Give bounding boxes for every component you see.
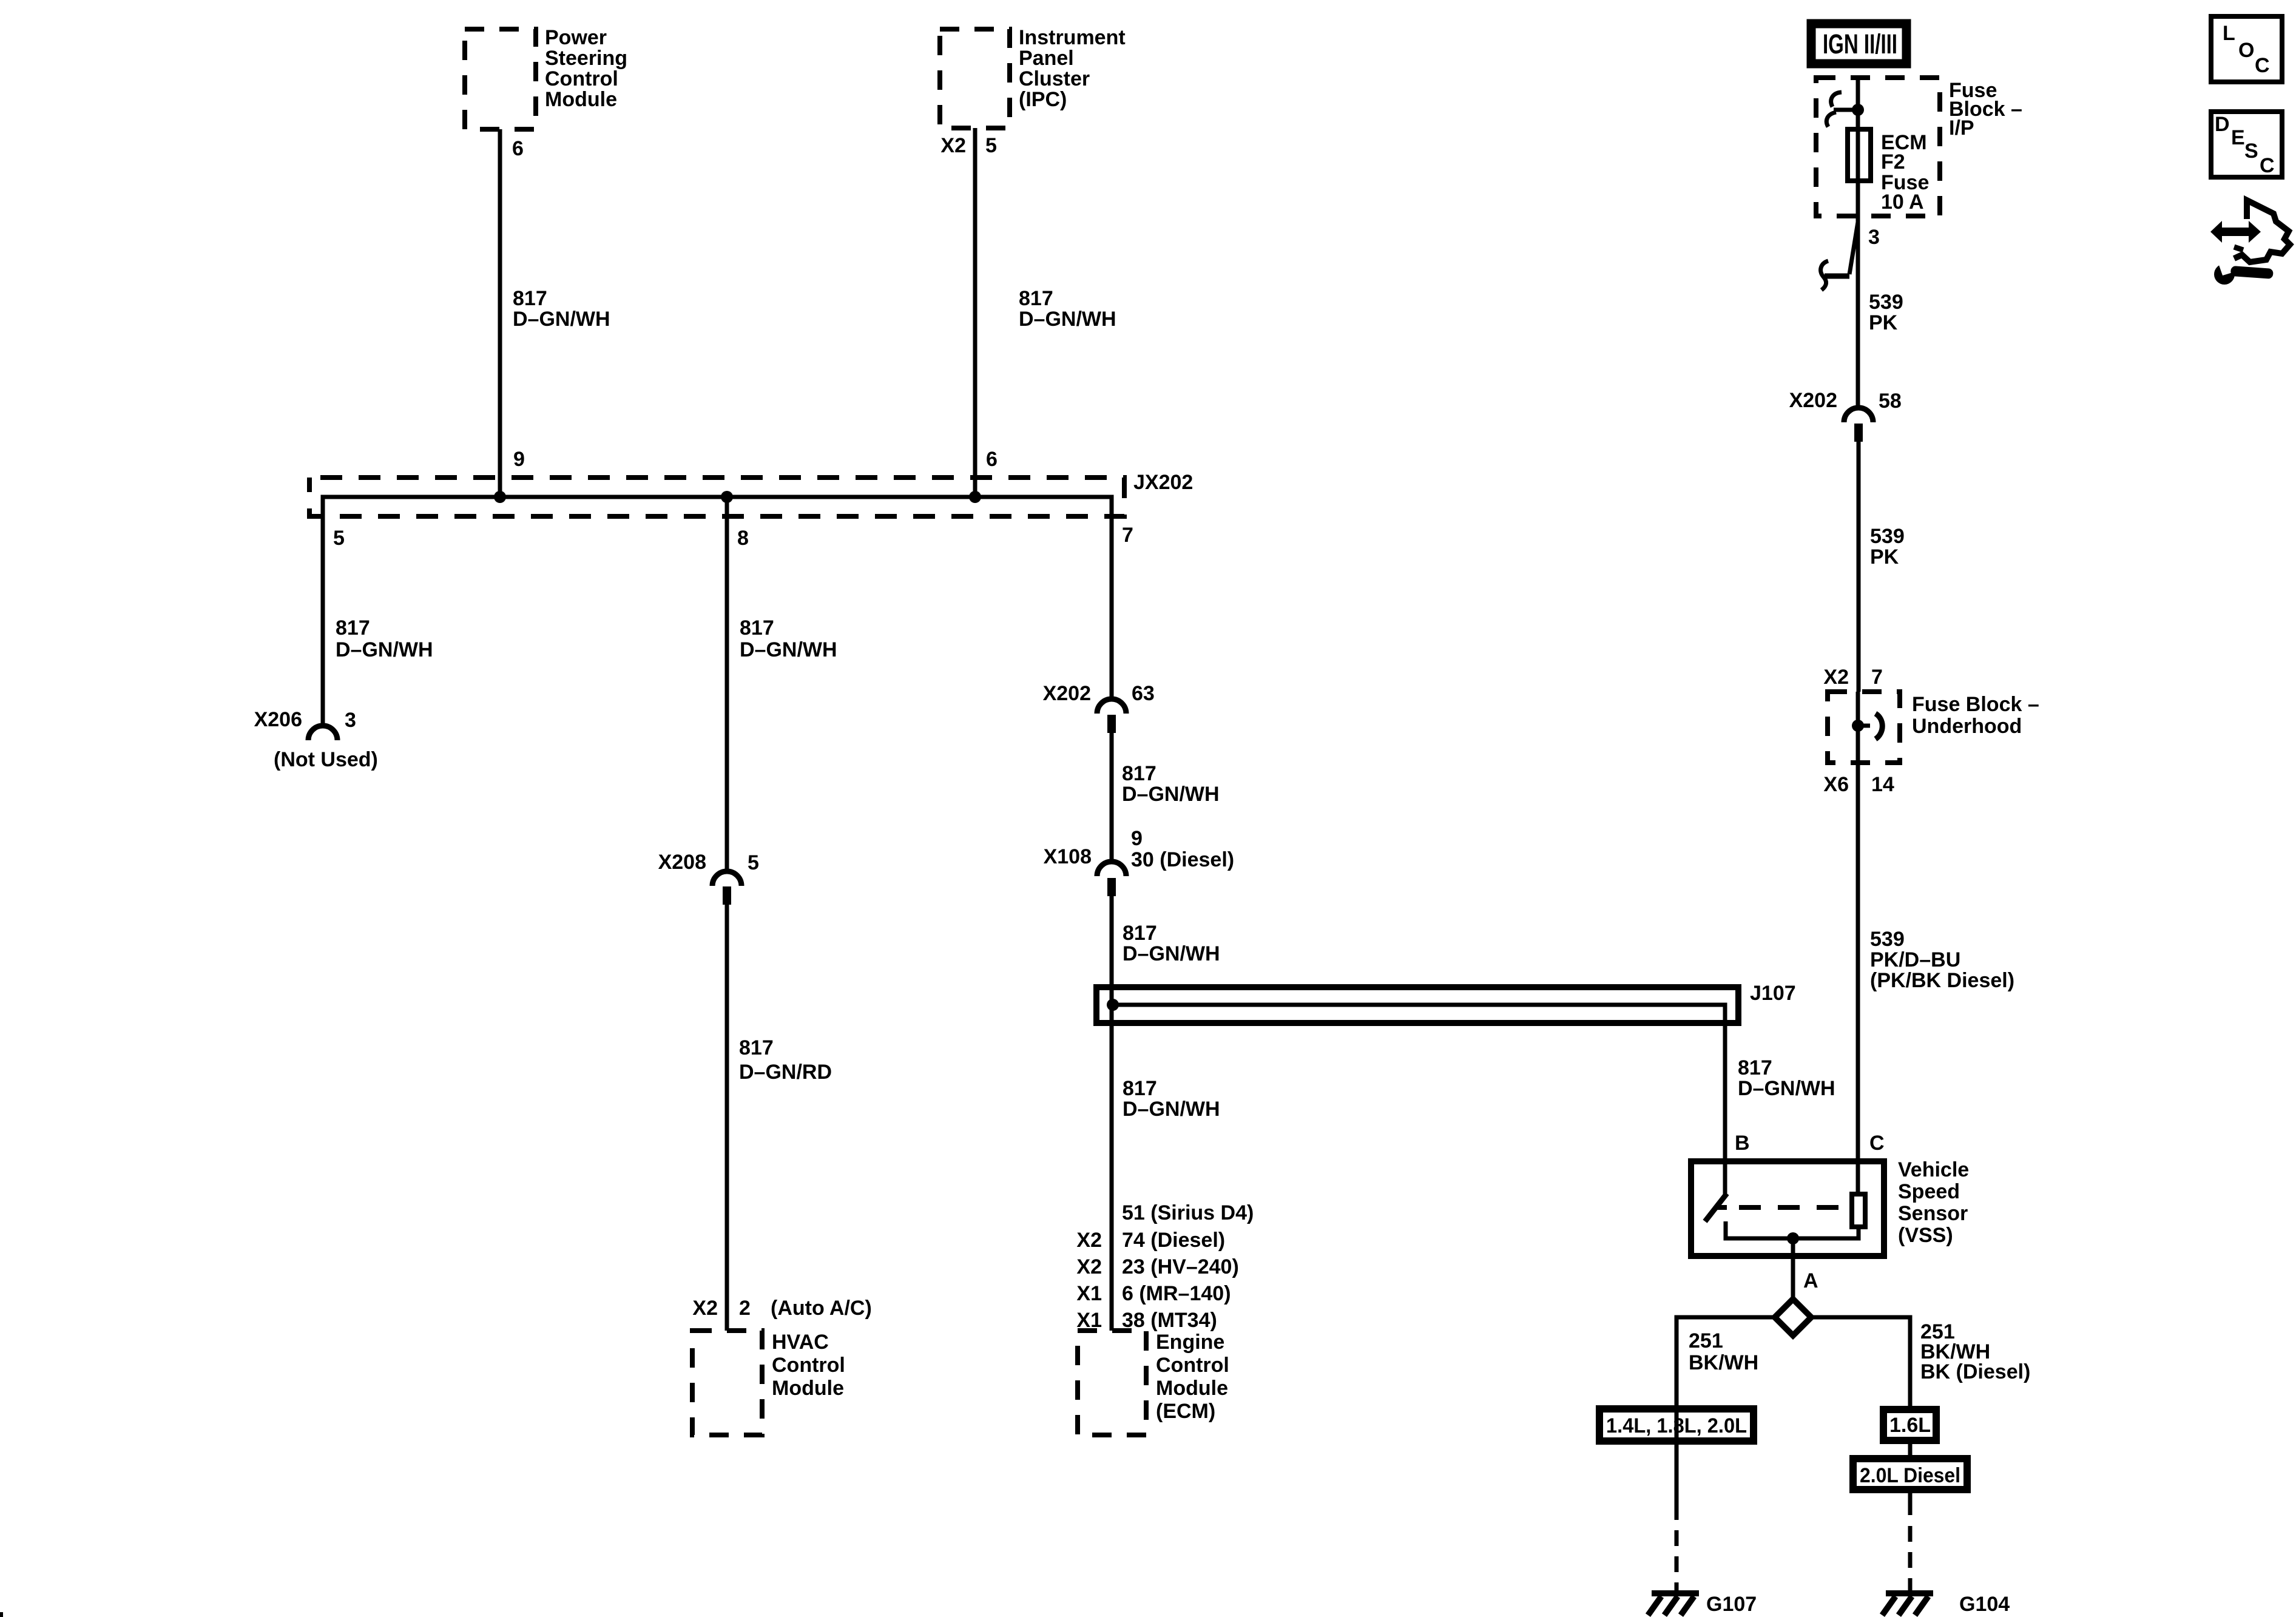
splice pack JX202 dashed outline bbox=[309, 478, 1124, 516]
svg-text:D–GN/WH: D–GN/WH bbox=[513, 308, 610, 331]
module Engine Control Module ECM (dashed box) bbox=[1078, 1331, 1229, 1435]
svg-text:Module: Module bbox=[772, 1377, 844, 1400]
svg-text:1.6L: 1.6L bbox=[1889, 1414, 1931, 1437]
wire PSCM pin 6 to JX202 bbox=[498, 129, 502, 497]
ground G107 bbox=[1648, 1593, 1757, 1616]
junction node at middle drop on bus bbox=[721, 491, 733, 503]
fuse ECM F2 10A bbox=[1848, 129, 1929, 214]
svg-text:Control: Control bbox=[545, 67, 618, 90]
wire underhood fuse block to VSS C bbox=[1856, 763, 1860, 1194]
connector X208 pin 5 bbox=[658, 851, 759, 905]
connector X206 pin 3 (not used) bbox=[254, 708, 378, 771]
svg-text:D–GN/WH: D–GN/WH bbox=[1122, 783, 1220, 806]
legend LOC box bbox=[2211, 16, 2282, 82]
svg-text:58: 58 bbox=[1879, 390, 1902, 413]
wire label 817 D-GN/WH (PSCM branch) bbox=[513, 287, 610, 331]
svg-text:Control: Control bbox=[772, 1354, 845, 1377]
wire IPC pin 5 to JX202 bbox=[973, 128, 977, 497]
svg-text:C: C bbox=[1869, 1132, 1885, 1155]
svg-text:X2: X2 bbox=[1076, 1255, 1102, 1278]
svg-text:IGN II/III: IGN II/III bbox=[1823, 29, 1897, 59]
wire label 817 D-GN/WH (below J107) bbox=[1123, 1077, 1220, 1121]
wire 2.0L Diesel box to ground G104 (dashed) bbox=[1908, 1490, 1913, 1591]
svg-text:I/P: I/P bbox=[1949, 116, 1974, 140]
svg-text:X2: X2 bbox=[1823, 666, 1849, 689]
svg-text:X1: X1 bbox=[1076, 1282, 1102, 1305]
svg-text:14: 14 bbox=[1871, 773, 1894, 796]
svg-text:817: 817 bbox=[739, 1036, 774, 1059]
svg-text:3: 3 bbox=[1868, 226, 1880, 249]
fuse block I/P dashed box bbox=[1816, 78, 1940, 216]
wire X202-58 to fuse block underhood bbox=[1857, 442, 1861, 692]
fuse block underhood dashed box bbox=[1828, 692, 1900, 763]
option box 1.4L, 1.8L, 2.0L bbox=[1599, 1409, 1754, 1441]
label Fuse Block - I/P bbox=[1949, 79, 2022, 140]
wire label 817 D-GN/WH (middle branch) bbox=[740, 616, 837, 661]
legend service tool icon bbox=[2210, 200, 2290, 285]
svg-text:30 (Diesel): 30 (Diesel) bbox=[1131, 848, 1234, 871]
ECM pin list X1 6 (MR-140) bbox=[1076, 1282, 1231, 1305]
svg-text:539: 539 bbox=[1869, 291, 1903, 314]
clip terminal in underhood fuse block bbox=[1858, 714, 1882, 739]
svg-text:817: 817 bbox=[513, 287, 547, 310]
wire VSS pin A to splice diamond bbox=[1791, 1238, 1795, 1299]
option box 2.0L Diesel bbox=[1853, 1459, 1967, 1490]
clip terminal in fuse block bbox=[1826, 92, 1858, 127]
svg-text:10 A: 10 A bbox=[1881, 191, 1924, 214]
svg-text:C: C bbox=[2255, 54, 2270, 77]
svg-text:D–GN/RD: D–GN/RD bbox=[739, 1061, 832, 1084]
svg-text:X202: X202 bbox=[1043, 682, 1091, 705]
wire label 817 D-GN/WH (IPC branch) bbox=[1019, 287, 1116, 331]
resistor inside VSS bbox=[1852, 1194, 1865, 1227]
wire label 251 BK/WH BK (Diesel) (right) bbox=[1920, 1320, 2030, 1383]
svg-text:1.4L, 1.8L, 2.0L: 1.4L, 1.8L, 2.0L bbox=[1606, 1414, 1747, 1437]
power label IGN II/III bbox=[1811, 24, 1906, 64]
svg-text:E: E bbox=[2231, 126, 2245, 149]
svg-text:G107: G107 bbox=[1706, 1593, 1757, 1616]
svg-text:23 (HV–240): 23 (HV–240) bbox=[1122, 1255, 1239, 1278]
junction node at PSCM wire on bus bbox=[494, 491, 506, 503]
svg-text:9: 9 bbox=[1131, 827, 1143, 850]
wire label 817 D-GN/WH (below X202-63) bbox=[1122, 762, 1220, 806]
svg-text:2.0L Diesel: 2.0L Diesel bbox=[1860, 1464, 1960, 1487]
svg-text:539: 539 bbox=[1870, 525, 1905, 548]
svg-text:X2: X2 bbox=[940, 134, 966, 157]
wire label 817 D-GN/RD bbox=[739, 1036, 832, 1084]
svg-text:Module: Module bbox=[1156, 1377, 1228, 1400]
connector X6 pin 14 of underhood fuse block bbox=[1823, 773, 1894, 796]
svg-text:74 (Diesel): 74 (Diesel) bbox=[1122, 1229, 1225, 1252]
svg-text:Instrument: Instrument bbox=[1019, 26, 1126, 49]
wire through underhood fuse block bbox=[1856, 692, 1860, 763]
svg-text:251: 251 bbox=[1689, 1329, 1723, 1352]
svg-text:D–GN/WH: D–GN/WH bbox=[1123, 1098, 1220, 1121]
svg-text:D–GN/WH: D–GN/WH bbox=[1019, 308, 1116, 331]
svg-text:817: 817 bbox=[1123, 922, 1157, 945]
junction node in underhood fuse block bbox=[1852, 720, 1864, 732]
svg-text:PK: PK bbox=[1870, 545, 1899, 569]
svg-text:5: 5 bbox=[985, 134, 997, 157]
internal wire switch to resistor bottom bbox=[1726, 1221, 1859, 1238]
svg-text:Cluster: Cluster bbox=[1019, 67, 1090, 90]
svg-text:Underhood: Underhood bbox=[1912, 715, 2022, 738]
splice diamond bbox=[1775, 1299, 1811, 1335]
svg-text:X208: X208 bbox=[658, 851, 706, 874]
connector X108 pins 9 / 30 (Diesel) bbox=[1044, 827, 1235, 896]
svg-text:B: B bbox=[1735, 1132, 1750, 1155]
svg-text:539: 539 bbox=[1870, 928, 1905, 951]
svg-text:A: A bbox=[1803, 1269, 1818, 1292]
svg-text:6: 6 bbox=[512, 137, 524, 160]
junction node inside VSS bbox=[1787, 1232, 1799, 1244]
svg-text:Power: Power bbox=[545, 26, 607, 49]
connector X2 pin 5 of IPC bbox=[940, 134, 997, 157]
wire 1.4L box to ground G107 (dashed) bbox=[1675, 1441, 1679, 1591]
svg-text:Fuse Block –: Fuse Block – bbox=[1912, 693, 2039, 716]
wire X202-63 to X108 bbox=[1110, 733, 1114, 862]
module Power Steering Control Module (dashed box) bbox=[465, 26, 627, 129]
svg-text:(Not Used): (Not Used) bbox=[274, 748, 378, 771]
wire label 817 D-GN/WH (left branch) bbox=[336, 616, 433, 661]
splice J107 outer box bbox=[1096, 987, 1738, 1023]
svg-text:6 (MR–140): 6 (MR–140) bbox=[1122, 1282, 1231, 1305]
ground G104 bbox=[1882, 1593, 2010, 1616]
legend DESC box bbox=[2211, 112, 2282, 177]
svg-text:7: 7 bbox=[1122, 524, 1133, 547]
svg-text:J107: J107 bbox=[1750, 982, 1796, 1005]
svg-text:(PK/BK Diesel): (PK/BK Diesel) bbox=[1870, 969, 2014, 992]
svg-text:817: 817 bbox=[336, 616, 370, 640]
module HVAC Control Module (dashed box) bbox=[692, 1331, 845, 1435]
switch arm inside VSS bbox=[1705, 1193, 1727, 1221]
svg-text:BK (Diesel): BK (Diesel) bbox=[1920, 1360, 2030, 1383]
connector X202 pin 58 bbox=[1789, 389, 1902, 442]
svg-text:G104: G104 bbox=[1959, 1593, 2010, 1616]
svg-text:817: 817 bbox=[1122, 762, 1156, 785]
ECM pin list X1 38 (MT34) bbox=[1076, 1309, 1217, 1332]
svg-text:Sensor: Sensor bbox=[1898, 1202, 1968, 1225]
svg-text:X108: X108 bbox=[1044, 845, 1092, 868]
svg-text:X6: X6 bbox=[1823, 773, 1849, 796]
svg-text:O: O bbox=[2238, 39, 2254, 62]
svg-text:63: 63 bbox=[1132, 682, 1155, 705]
svg-text:PK/D–BU: PK/D–BU bbox=[1870, 948, 1960, 971]
svg-text:6: 6 bbox=[986, 448, 998, 471]
junction node in fuse block bbox=[1852, 104, 1864, 116]
svg-text:D–GN/WH: D–GN/WH bbox=[1738, 1077, 1835, 1100]
svg-text:3: 3 bbox=[345, 709, 356, 732]
clip terminal below fuse block bbox=[1821, 222, 1858, 290]
svg-text:Steering: Steering bbox=[545, 47, 627, 70]
svg-text:817: 817 bbox=[1019, 287, 1053, 310]
svg-text:5: 5 bbox=[333, 527, 345, 550]
svg-text:X2: X2 bbox=[692, 1297, 718, 1320]
svg-text:Vehicle: Vehicle bbox=[1898, 1158, 1969, 1181]
ECM pin list X2 74 (Diesel) bbox=[1076, 1229, 1225, 1252]
svg-text:BK/WH: BK/WH bbox=[1689, 1351, 1758, 1374]
svg-text:D–GN/WH: D–GN/WH bbox=[1123, 942, 1220, 965]
svg-text:(VSS): (VSS) bbox=[1898, 1224, 1953, 1247]
svg-text:(IPC): (IPC) bbox=[1019, 88, 1067, 111]
wire 1.6L to 2.0L Diesel box bbox=[1908, 1440, 1913, 1459]
component Vehicle Speed Sensor box bbox=[1691, 1158, 1969, 1256]
wire diamond to 1.4L 1.8L 2.0L box bbox=[1676, 1317, 1775, 1445]
svg-text:817: 817 bbox=[1123, 1077, 1157, 1100]
wire IGN feed through fuse block bbox=[1856, 78, 1860, 408]
svg-text:8: 8 bbox=[737, 527, 749, 550]
svg-text:PK: PK bbox=[1869, 311, 1898, 334]
wire label 817 D-GN/WH (J107 to VSS B) bbox=[1738, 1056, 1835, 1100]
wire label 251 BK/WH (left) bbox=[1689, 1329, 1758, 1374]
svg-text:(Auto A/C): (Auto A/C) bbox=[771, 1297, 872, 1320]
svg-text:JX202: JX202 bbox=[1133, 471, 1193, 494]
svg-text:X202: X202 bbox=[1789, 389, 1837, 412]
dashed actuation line inside VSS bbox=[1739, 1205, 1848, 1210]
wire label 539 PK (upper) bbox=[1869, 291, 1903, 334]
connector X2 pin 2 (Auto A/C) of HVAC bbox=[692, 1297, 871, 1320]
svg-text:D–GN/WH: D–GN/WH bbox=[740, 638, 837, 661]
connector X2 pin 7 of underhood fuse block bbox=[1823, 666, 1883, 689]
svg-text:D–GN/WH: D–GN/WH bbox=[336, 638, 433, 661]
wire label 539 PK (lower) bbox=[1870, 525, 1905, 569]
ECM pin list X2 23 (HV-240) bbox=[1076, 1255, 1238, 1278]
svg-text:(ECM): (ECM) bbox=[1156, 1400, 1215, 1423]
option box 1.6L bbox=[1883, 1409, 1936, 1440]
bus wire inside JX202 bbox=[323, 497, 1112, 726]
wire X208 to HVAC control module bbox=[725, 905, 729, 1331]
wire label 817 D-GN/WH (above J107) bbox=[1123, 922, 1220, 965]
svg-text:2: 2 bbox=[739, 1297, 751, 1320]
label Fuse Block - Underhood bbox=[1912, 693, 2039, 738]
svg-text:817: 817 bbox=[740, 616, 774, 640]
svg-text:5: 5 bbox=[748, 851, 759, 874]
svg-text:817: 817 bbox=[1738, 1056, 1772, 1079]
svg-text:51 (Sirius D4): 51 (Sirius D4) bbox=[1122, 1201, 1254, 1224]
junction node at IPC wire on bus bbox=[969, 491, 981, 503]
svg-text:C: C bbox=[2260, 154, 2275, 177]
wire label 539 PK/D-BU (PK/BK Diesel) bbox=[1870, 928, 2014, 992]
svg-text:7: 7 bbox=[1871, 666, 1883, 689]
splice J107 internal wire bbox=[1113, 1005, 1725, 1195]
svg-text:38 (MT34): 38 (MT34) bbox=[1122, 1309, 1217, 1332]
svg-text:Engine: Engine bbox=[1156, 1331, 1224, 1354]
connector X202 pin 63 bbox=[1043, 682, 1155, 733]
wire JX202 middle drop to X208 bbox=[725, 497, 729, 869]
svg-text:X206: X206 bbox=[254, 708, 302, 731]
svg-text:L: L bbox=[2223, 22, 2235, 45]
module Instrument Panel Cluster IPC (dashed box) bbox=[940, 26, 1126, 128]
svg-text:Speed: Speed bbox=[1898, 1180, 1960, 1203]
wire diamond to 1.6L box bbox=[1811, 1317, 1910, 1406]
svg-text:D: D bbox=[2215, 113, 2230, 136]
svg-text:Control: Control bbox=[1156, 1354, 1229, 1377]
svg-text:Module: Module bbox=[545, 88, 617, 111]
svg-text:Panel: Panel bbox=[1019, 47, 1074, 70]
junction node on J107 internal wire bbox=[1107, 999, 1119, 1011]
svg-text:S: S bbox=[2244, 140, 2258, 163]
svg-text:9: 9 bbox=[513, 448, 525, 471]
svg-text:HVAC: HVAC bbox=[772, 1331, 829, 1354]
wire X108 to ECM through J107 bbox=[1110, 896, 1114, 1331]
svg-text:X2: X2 bbox=[1076, 1229, 1102, 1252]
page artifact bottom-left bbox=[0, 1612, 3, 1617]
svg-text:F2: F2 bbox=[1881, 150, 1905, 174]
